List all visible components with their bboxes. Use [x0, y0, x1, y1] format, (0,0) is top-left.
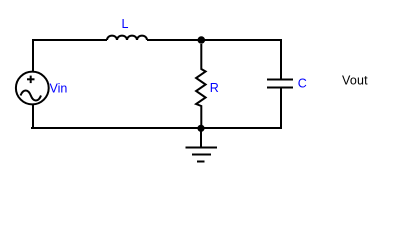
capacitor C bottom plate [267, 87, 293, 89]
inductor L [107, 36, 147, 40]
ground stub [200, 128, 202, 148]
svg-text:Vin: Vin [50, 81, 68, 95]
wire: source bottom stub [32, 105, 34, 130]
node dot bottom [197, 125, 204, 132]
svg-text:C: C [298, 77, 307, 91]
ground bar 3 [197, 161, 205, 163]
AC source Vin [16, 72, 49, 105]
node dot top [198, 36, 206, 44]
svg-text:L: L [122, 17, 129, 31]
svg-text:R: R [210, 81, 219, 95]
ground bar 1 [186, 147, 218, 149]
ground bar 2 [192, 154, 211, 156]
wire: top right segment [147, 39, 282, 41]
capacitor C top plate [267, 79, 293, 81]
wire: right upper [280, 39, 282, 80]
wire: top left segment [32, 39, 107, 41]
svg-text:Vout: Vout [342, 74, 368, 88]
wire: right lower [280, 88, 282, 130]
resistor R [196, 44, 206, 128]
wire: source top stub [32, 40, 34, 72]
wire: bottom [31, 127, 282, 129]
